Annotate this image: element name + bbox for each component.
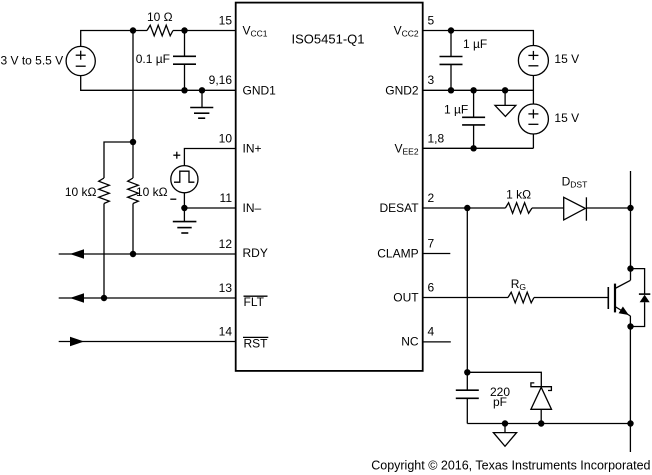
pulse source V4 [170,152,198,200]
svg-text:GND2: GND2 [385,83,419,97]
wire OUT pin to gate resistor [423,297,508,299]
svg-text:GND1: GND1 [243,83,277,97]
diode D1 DDST [562,175,588,221]
svg-text:15 V: 15 V [554,52,579,66]
svg-text:1 µF: 1 µF [444,103,468,117]
voltage source V1 3V-5.5V [0,46,95,75]
svg-text:7: 7 [428,236,435,250]
wire bottom rail [467,423,630,425]
node junction GND2 ground [502,87,508,93]
wire FLT line [59,297,236,299]
svg-text:CLAMP: CLAMP [377,247,418,261]
capacitor C1 0.1uF [136,31,196,91]
svg-text:15 V: 15 V [554,111,579,125]
svg-text:FLT: FLT [244,295,265,309]
wire V1 top to VCC1 rail [81,31,147,47]
wire DESAT vertical to cap [466,208,468,390]
pin 1,8 label VEE2 [395,131,445,156]
wire resistor to diode [532,207,564,209]
op-amp U1 ISO5451-Q1 body [236,3,423,371]
svg-text:NC: NC [401,335,419,349]
diode D2 freewheel [631,269,651,327]
svg-text:5: 5 [428,13,435,27]
pin 3 label GND2 [385,73,434,97]
node junction DESAT collector [627,205,633,211]
svg-text:15: 15 [219,13,233,27]
wire emitter rail down [629,316,631,452]
wire GND2 rail [423,89,534,91]
pin 15 label VCC1 [219,13,268,38]
wire VCC2 pin to supply [423,31,534,46]
pin 10 label IN+ [219,131,262,155]
wire V1 bottom to GND1 pin [81,76,236,91]
node junction zener branch [464,369,470,375]
node junction GND2 cap1 [448,87,454,93]
svg-text:11: 11 [220,191,233,205]
resistor R2 10k [65,178,109,204]
svg-text:3: 3 [428,73,435,87]
svg-text:9,16: 9,16 [209,73,233,87]
wire to right pullup [132,142,134,178]
svg-text:RST: RST [244,336,269,350]
node junction emitter [627,323,633,329]
pin 4 label NC [401,324,434,348]
resistor R5 RG [508,277,534,303]
ground input side symbol [173,208,197,233]
svg-text:IN+: IN+ [243,142,262,156]
svg-text:1,8: 1,8 [428,131,445,145]
svg-text:1 µF: 1 µF [463,37,487,51]
wire IN- pin [184,207,235,209]
svg-text:OUT: OUT [393,291,419,305]
wire CLAMP stub [423,253,451,255]
svg-text:6: 6 [428,280,435,294]
svg-text:Copyright © 2016, Texas Instru: Copyright © 2016, Texas Instruments Inco… [371,459,650,473]
node junction ground tap [199,87,205,93]
svg-text:pF: pF [493,395,507,409]
pin 12 label RDY [219,237,268,260]
pin 7 label CLAMP [377,236,434,260]
svg-text:10 kΩ: 10 kΩ [65,185,97,199]
svg-text:10 Ω: 10 Ω [147,10,173,24]
pin 13 label FLT (active low) [219,281,268,309]
node junction bottom ground [502,420,508,426]
node junction cap top [181,27,187,33]
wire R3 bottom to RDY line [132,204,134,255]
node junction emitter bottom [627,420,633,426]
pin 6 label OUT [393,280,434,304]
arrow RST in [70,337,84,347]
wire collector rail up [630,171,632,280]
svg-text:12: 12 [219,237,233,251]
node junction FLT pullup [101,295,107,301]
capacitor C3 1uF [444,90,485,148]
svg-text:14: 14 [219,324,233,338]
pin 11 label IN- [220,191,262,215]
pin 14 label RST (active low) [219,324,269,350]
svg-text:13: 13 [219,281,233,295]
wire pulse source bottom to IN- line [183,193,185,208]
capacitor C4 220pF [456,385,511,424]
node junction zener bottom [538,420,544,426]
wire RDY line [59,253,236,255]
node junction freewheel diode top [627,265,633,271]
arrow RDY out [70,249,84,259]
wire DESAT pin to resistor [423,207,506,209]
wire resistor to VCC1 pin [173,30,236,32]
resistor R3 10k [128,178,168,204]
wire NC stub [423,341,451,343]
zener diode D3 [531,383,552,424]
resistor R4 1k [505,188,532,214]
svg-text:IN–: IN– [243,201,262,215]
node junction RDY pullup [130,251,136,257]
node junction on VCC1 rail [130,27,136,33]
svg-text:DESAT: DESAT [379,201,419,215]
voltage source V3 15V bottom [518,104,579,134]
arrow FLT out [70,293,84,303]
wire V2 bottom through GND2 to V3 top [532,76,534,105]
svg-text:0.1 µF: 0.1 µF [136,52,170,66]
wire V3 bottom to VEE2 rail [532,134,534,148]
wire VEE2 rail [423,147,534,149]
pin 9,16 label GND1 [209,73,277,98]
node junction IN- [181,205,187,211]
svg-text:1 kΩ: 1 kΩ [506,188,531,202]
node junction VEE2 cap2 [470,145,476,151]
wire diode to collector rail [586,207,630,209]
wire branch to zener [467,372,541,386]
node junction GND2 cap2 [470,87,476,93]
svg-text:3 V to 5.5 V: 3 V to 5.5 V [0,54,63,68]
wire R2 bottom to FLT line [103,204,105,299]
pin 2 label DESAT [379,191,434,215]
svg-text:2: 2 [428,191,435,205]
resistor R1 10 ohm [147,10,173,36]
pin 5 label VCC2 [394,13,435,38]
transistor Q1 IGBT [608,280,630,316]
svg-text:ISO5451-Q1: ISO5451-Q1 [292,32,365,47]
node junction DESAT [464,205,470,211]
node junction divider top [130,139,136,145]
ground GND1 symbol [190,90,213,118]
svg-text:10: 10 [219,131,233,145]
node junction cap bottom [181,87,187,93]
wire RG to gate [534,297,608,299]
voltage source V2 15V top [518,46,579,76]
wire VCC1 rail down to resistor divider [132,31,134,143]
capacitor C2 1uF [440,31,488,91]
wire RST line [59,341,236,343]
svg-text:4: 4 [428,324,435,338]
svg-text:10 kΩ: 10 kΩ [136,185,168,199]
ground power side symbol [493,424,516,447]
wire branch to left pullup [104,142,133,178]
svg-text:RDY: RDY [243,246,268,260]
node junction VCC2 cap [448,27,454,33]
wire IN+ pin to pulse source [184,149,235,166]
ground GND2 symbol [495,90,516,116]
